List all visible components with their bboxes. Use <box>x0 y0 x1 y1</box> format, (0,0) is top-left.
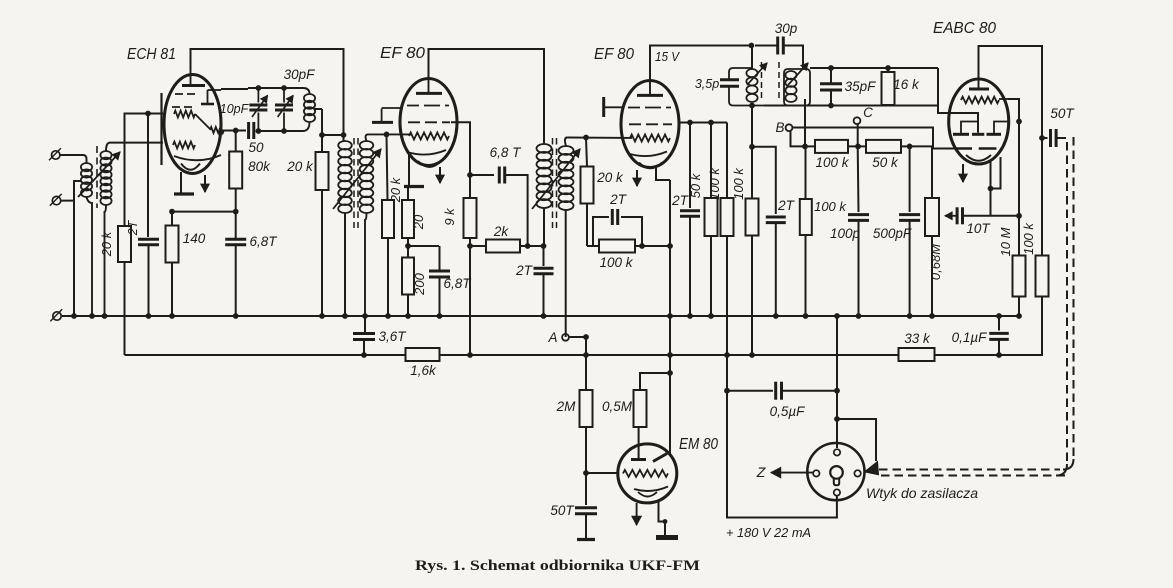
EABC80 diode wire <box>949 113 978 133</box>
ECH81 anode plate <box>182 70 205 86</box>
wire <box>106 143 163 151</box>
label 3,5p <box>695 77 719 91</box>
junction <box>467 352 473 358</box>
wire <box>365 213 367 316</box>
svg-text:2k: 2k <box>493 224 510 239</box>
wire <box>148 245 150 316</box>
svg-text:0,5µF: 0,5µF <box>770 404 806 419</box>
label 2T det <box>777 198 796 213</box>
label 50 <box>248 140 264 155</box>
wire top rail <box>810 67 938 69</box>
EF80-2 grid dashes2 <box>629 123 672 125</box>
wire screen <box>451 122 470 198</box>
wire <box>585 427 587 505</box>
wire anode top <box>979 46 1043 138</box>
EABC80 cathode arrow <box>959 164 967 182</box>
junction <box>169 209 175 215</box>
junction <box>724 352 730 358</box>
wire tank top2 <box>248 88 310 94</box>
wire grid <box>565 138 632 147</box>
det secondary box <box>784 69 810 106</box>
EM80 cup <box>638 492 657 497</box>
capacitor 0,1uF <box>989 316 1009 355</box>
wire <box>73 201 75 316</box>
wire det return <box>751 106 753 200</box>
wire <box>585 337 587 391</box>
junction <box>996 313 1002 319</box>
EM80 deflector <box>653 454 667 462</box>
wire tube out <box>221 130 246 132</box>
label 2M <box>556 399 577 414</box>
wire osc grid <box>125 114 164 228</box>
arrow 10T <box>945 212 957 220</box>
EABC80 bottom cup <box>966 155 991 161</box>
EM80 grid bar <box>631 458 646 461</box>
wire <box>344 213 346 316</box>
wire det sec bottom <box>804 99 806 146</box>
svg-text:2T: 2T <box>126 219 140 236</box>
wire coil tap <box>314 108 322 110</box>
capacitor 50T em80 <box>575 508 597 538</box>
capacitor 10T <box>957 207 962 224</box>
test point A <box>562 334 569 341</box>
shield corner <box>1056 459 1074 476</box>
resistor 20k osc <box>316 152 329 316</box>
junction <box>583 470 589 476</box>
label 3,6T <box>378 329 407 344</box>
svg-text:20: 20 <box>411 214 426 230</box>
label 1,6k <box>410 363 437 378</box>
junction <box>437 313 443 319</box>
svg-text:50T: 50T <box>1050 106 1075 121</box>
label 6,8T series <box>490 145 523 160</box>
svg-text:6,8 T: 6,8 T <box>490 145 523 160</box>
label 100k row <box>815 155 849 170</box>
junction <box>856 313 862 319</box>
caption <box>415 558 700 574</box>
second bus mid <box>439 354 899 356</box>
resistor 100k right <box>1036 138 1049 297</box>
capacitor 50 <box>249 122 254 139</box>
wire cap 6,8T series <box>470 174 494 176</box>
ECH81 cathode pin <box>180 172 182 193</box>
label 100k c <box>731 167 746 200</box>
junction <box>319 132 325 138</box>
EF80-1 grid dashes1 <box>407 105 449 107</box>
svg-text:16 k: 16 k <box>893 77 920 92</box>
junction <box>146 313 152 319</box>
label 50k row <box>872 155 899 170</box>
svg-text:100 k: 100 k <box>707 167 722 200</box>
svg-text:3,5p: 3,5p <box>695 77 719 91</box>
resistor 200 <box>402 258 414 317</box>
det primary arrow <box>747 63 767 85</box>
svg-text:100 k: 100 k <box>731 167 746 200</box>
svg-text:EF 80: EF 80 <box>594 46 634 63</box>
antenna terminal 2 <box>50 194 62 206</box>
test point C <box>854 117 861 124</box>
junction <box>319 313 325 319</box>
junction <box>749 103 755 109</box>
wire anode right <box>1008 99 1019 255</box>
junction <box>907 313 913 319</box>
IF1 primary coil <box>338 141 352 213</box>
ECH81 triode anode <box>201 90 221 104</box>
shield cable vertical <box>1067 137 1074 464</box>
wire 2T det lead <box>752 147 776 214</box>
capacitor 10pF variable <box>249 88 267 131</box>
second bus left <box>125 354 407 356</box>
junction <box>885 65 891 71</box>
plug pin bottom <box>834 489 840 495</box>
EF80-2 cathode arrow <box>633 170 641 186</box>
label 100k b <box>707 167 722 200</box>
label 180V <box>726 525 811 540</box>
svg-text:Wtyk do zasilacza: Wtyk do zasilacza <box>866 485 978 501</box>
junction <box>1016 313 1022 319</box>
svg-text:100p: 100p <box>830 226 861 241</box>
junction <box>988 186 994 192</box>
junction <box>583 135 589 141</box>
svg-text:20 k: 20 k <box>99 230 114 257</box>
junction <box>828 65 834 71</box>
junction <box>102 313 108 319</box>
resistor 100k det2 <box>800 146 812 316</box>
antenna coil arrow <box>78 152 120 197</box>
capacitor 2T if2 <box>534 268 554 316</box>
junction <box>145 111 151 117</box>
label 2k <box>493 224 510 239</box>
EF80-1 grid dashes2 <box>408 121 450 123</box>
ECH81 hexode zigzag <box>174 111 224 133</box>
ground <box>577 538 595 541</box>
ECH81 cathode arrow <box>201 175 209 192</box>
svg-text:33 k: 33 k <box>904 331 931 346</box>
det primary box <box>729 68 764 106</box>
svg-text:2T: 2T <box>777 198 796 213</box>
capacitor 100p <box>848 146 869 316</box>
wire row B <box>805 145 815 147</box>
EM80 zigzag <box>623 470 668 477</box>
label 6,8T <box>249 234 278 249</box>
junction <box>929 313 935 319</box>
svg-text:50T: 50T <box>550 503 575 518</box>
svg-text:+ 180 V 22 mA: + 180 V 22 mA <box>726 525 811 540</box>
svg-text:50 k: 50 k <box>688 172 703 198</box>
label EM80 <box>679 436 718 453</box>
ECH81 triode grid zigzag <box>173 142 195 149</box>
label 35pF <box>845 79 877 94</box>
EABC80 zigzag <box>961 97 1008 104</box>
junction <box>233 209 239 215</box>
tube EABC80 <box>949 79 1009 164</box>
junction <box>169 313 175 319</box>
det cores <box>762 62 780 102</box>
label 100p <box>830 226 861 241</box>
label 0,5M <box>602 399 633 414</box>
wire <box>87 197 93 316</box>
wire <box>322 134 344 136</box>
wire 10T row <box>964 215 1019 217</box>
EF80-2 anode plate <box>637 81 663 95</box>
plug pin top <box>834 449 840 455</box>
capacitor 2T lead <box>147 114 149 238</box>
ground <box>404 185 424 188</box>
label Z <box>756 464 766 480</box>
svg-text:2M: 2M <box>556 399 577 414</box>
svg-text:100 k: 100 k <box>815 155 849 170</box>
svg-text:Z: Z <box>756 464 766 480</box>
wire <box>124 262 126 355</box>
svg-text:50: 50 <box>248 140 264 155</box>
svg-text:Rys. 1. Schemat odbiornika UKF: Rys. 1. Schemat odbiornika UKF-FM <box>415 558 700 574</box>
tube EM80 <box>618 444 677 503</box>
wire tap <box>61 181 81 201</box>
svg-text:ECH 81: ECH 81 <box>127 46 176 63</box>
shield arrow <box>865 462 879 475</box>
label 0,1uF <box>952 330 988 345</box>
svg-text:1,6k: 1,6k <box>410 363 437 378</box>
svg-text:2T: 2T <box>609 192 628 207</box>
wire tank bottom <box>256 122 310 131</box>
capacitor 30pF variable <box>275 88 293 131</box>
svg-text:10pF: 10pF <box>220 102 250 116</box>
wire <box>782 390 838 392</box>
resistor 100k cath <box>599 240 635 253</box>
label C <box>863 105 873 120</box>
junction <box>342 313 348 319</box>
capacitor 30p <box>755 37 803 70</box>
power plug <box>807 443 864 500</box>
test point B <box>786 124 793 131</box>
capacitor 35pF <box>820 68 842 106</box>
capacitor 3,6T <box>353 316 375 355</box>
wire 0,5uF row <box>727 390 773 392</box>
IF1 secondary coil <box>360 141 374 213</box>
junction <box>687 313 693 319</box>
EF80-1 zigzag <box>409 133 449 140</box>
wire grid <box>366 134 411 141</box>
junction <box>281 85 287 91</box>
resistor 33k <box>899 348 935 361</box>
junction <box>667 313 673 319</box>
capacitor 2T det <box>766 217 786 316</box>
junction <box>749 352 755 358</box>
label 15V <box>655 50 681 64</box>
wire <box>901 146 932 199</box>
plug key <box>830 466 843 485</box>
capacitor 0,5uF <box>776 382 782 400</box>
junction osc <box>233 128 239 134</box>
svg-text:C: C <box>863 105 873 120</box>
label 200 <box>412 272 427 295</box>
wire B plus <box>727 355 837 518</box>
junction <box>89 313 95 319</box>
wire <box>408 245 439 247</box>
potentiometer 0,68M <box>925 198 939 316</box>
junction <box>803 313 809 319</box>
label 30pF <box>284 67 316 82</box>
label 20k <box>388 176 403 203</box>
resistor 0,5M <box>634 390 647 427</box>
resistor 2k <box>470 240 544 253</box>
label EF80 no1 <box>380 45 425 62</box>
svg-text:EM 80: EM 80 <box>679 436 718 453</box>
label 50T out <box>1050 106 1075 121</box>
junction <box>708 313 714 319</box>
label 10pF <box>220 102 250 116</box>
svg-text:100 k: 100 k <box>814 199 847 214</box>
junction <box>467 243 473 249</box>
resistor 50k <box>705 123 718 317</box>
label 100k right <box>1021 222 1036 255</box>
antenna coil secondary <box>100 151 111 205</box>
junction <box>834 416 840 422</box>
label 2T screen <box>671 193 690 208</box>
junction <box>281 128 287 134</box>
capacitor 6,8T shunt <box>429 246 450 316</box>
EF80-2 cathode pin <box>656 166 670 180</box>
ECH81 dash row <box>172 106 192 108</box>
IF1 arrow <box>333 149 381 209</box>
svg-text:6,8T: 6,8T <box>443 276 472 291</box>
junction <box>773 313 779 319</box>
label 16k <box>893 77 920 92</box>
capacitor 500pF <box>899 146 920 316</box>
junction <box>362 313 368 319</box>
EABC80 anode plate <box>969 79 989 89</box>
label 10M <box>998 227 1013 256</box>
resistor 140 <box>166 212 179 316</box>
wire agc <box>669 180 671 455</box>
resistor 10M <box>1013 256 1026 317</box>
junction <box>663 519 668 524</box>
EF80-1 cathode pin <box>408 153 410 185</box>
junction <box>256 85 262 91</box>
resistor 100k det <box>746 199 759 356</box>
resistor 20k grid2 <box>581 138 594 247</box>
label EF80 no2 <box>594 46 634 63</box>
svg-text:80k: 80k <box>248 159 271 174</box>
wire <box>640 373 670 391</box>
ECH81 grid dashes <box>175 93 195 95</box>
det secondary arrow <box>788 63 808 85</box>
IF1 core <box>354 138 358 228</box>
resistor 100k row <box>815 140 848 153</box>
junction <box>467 172 473 178</box>
wire <box>469 238 471 355</box>
wire cathode row <box>172 211 236 213</box>
wire cath row <box>587 245 670 247</box>
svg-text:0,68M: 0,68M <box>928 244 943 280</box>
wire anode top <box>650 46 751 82</box>
wire C lead <box>857 125 859 147</box>
ground input terminal <box>50 309 62 321</box>
ground bus <box>62 315 1020 317</box>
ECH81 bottom cup <box>181 164 200 170</box>
junction <box>802 144 808 150</box>
resistor 80k <box>229 131 242 189</box>
junction <box>541 243 547 249</box>
junction <box>907 144 913 150</box>
label 9k <box>442 207 457 226</box>
grid stub <box>372 108 403 122</box>
label 50T em80 <box>550 503 575 518</box>
svg-text:30p: 30p <box>775 21 798 36</box>
EABC80 pin loop <box>991 157 1001 216</box>
wire det bottom rail <box>764 105 938 107</box>
label 20 <box>411 214 426 230</box>
svg-text:10T: 10T <box>966 221 991 236</box>
label 20k grid2 <box>596 170 624 185</box>
junction <box>834 388 840 394</box>
second bus right <box>934 297 1042 355</box>
wire anode top <box>429 49 545 137</box>
EF80-2 cathode arc <box>628 152 667 157</box>
wire Z <box>771 467 813 477</box>
det secondary coil <box>785 71 796 102</box>
junction <box>525 243 531 249</box>
capacitor 2T cath <box>593 209 642 246</box>
label B <box>775 120 784 135</box>
svg-text:EABC 80: EABC 80 <box>933 20 996 37</box>
junction <box>1039 135 1045 141</box>
junction <box>996 352 1002 358</box>
junction <box>71 313 77 319</box>
wire plug right feed <box>837 419 876 461</box>
junction <box>667 243 673 249</box>
label 80k <box>248 159 271 174</box>
svg-text:0,1µF: 0,1µF <box>952 330 988 345</box>
wire agc to tube <box>793 128 956 149</box>
ECH81 grid rail <box>160 93 162 165</box>
junction <box>667 370 673 376</box>
label ECH81 <box>127 46 176 63</box>
svg-text:EF 80: EF 80 <box>380 45 425 62</box>
junction <box>667 352 673 358</box>
svg-text:20 k: 20 k <box>388 176 403 203</box>
svg-text:A: A <box>547 330 557 345</box>
wire <box>407 238 409 258</box>
svg-text:9 k: 9 k <box>442 207 457 226</box>
label 2T if2 <box>515 263 534 278</box>
junction <box>749 43 755 49</box>
junction <box>341 132 347 138</box>
tube EF80 no2 <box>621 81 679 168</box>
label 500pF <box>873 226 912 241</box>
junction <box>405 243 411 249</box>
junction <box>361 352 367 358</box>
label 20k osc <box>286 159 314 174</box>
plug pin left <box>813 470 819 476</box>
junction <box>1016 213 1022 219</box>
label 20k input <box>99 230 114 257</box>
svg-text:100 k: 100 k <box>1021 222 1036 255</box>
label 100k det2 <box>814 199 847 214</box>
antenna coil primary <box>81 163 92 197</box>
svg-text:3,6T: 3,6T <box>378 329 407 344</box>
tube ECH81 <box>164 75 221 174</box>
oscillator coil <box>304 94 315 122</box>
wire <box>565 210 567 337</box>
junction <box>233 313 239 319</box>
resistor 20k input <box>118 226 131 262</box>
capacitor 2T <box>138 239 159 245</box>
wire A <box>569 336 586 338</box>
resistor 50k row <box>866 140 901 153</box>
EF80-2 zigzag <box>630 135 670 142</box>
svg-text:30pF: 30pF <box>284 67 316 82</box>
